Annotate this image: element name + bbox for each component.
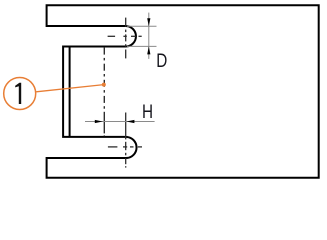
dimension H arrow right [126, 120, 134, 123]
dimension D arrow top [147, 18, 150, 26]
bottom slot horizontal centerline [108, 146, 142, 148]
balloon item number 1 [15, 83, 21, 104]
dimension D line [148, 13, 150, 59]
dimension D arrow bottom [147, 46, 150, 54]
groove axis centerline (vertical dash-dot) [103, 48, 105, 137]
svg-text:D: D [156, 49, 167, 71]
top slot horizontal centerline [108, 35, 142, 37]
svg-text:H: H [142, 100, 153, 122]
dimension D extension line top [127, 25, 157, 27]
dimension D extension line bottom [127, 45, 157, 47]
top slot vertical centerline [125, 18, 127, 59]
inner wall edge line [69, 47, 71, 137]
balloon leader line [36, 85, 104, 92]
dimension H arrow left [95, 120, 103, 123]
dimension H line [85, 121, 155, 123]
balloon leader dot [102, 83, 106, 87]
balloon circle [4, 78, 36, 110]
part outline [47, 5, 319, 178]
bottom slot vertical centerline [125, 113, 127, 168]
